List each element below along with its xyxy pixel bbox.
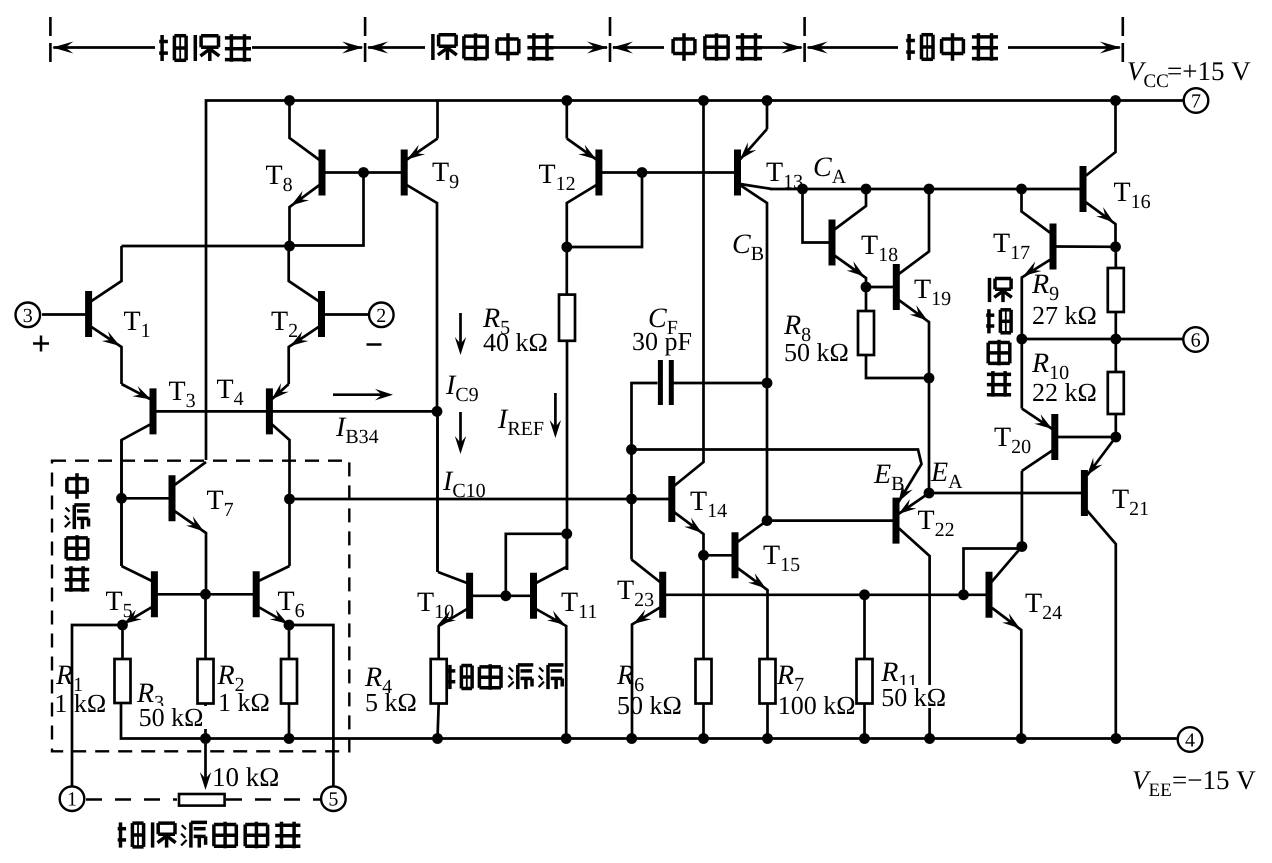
svg-text:=+15 V: =+15 V (1167, 56, 1251, 86)
svg-text:50 kΩ: 50 kΩ (881, 683, 946, 712)
svg-text:50 kΩ: 50 kΩ (617, 691, 682, 720)
svg-text:4: 4 (1185, 730, 1195, 752)
svg-text:50 kΩ: 50 kΩ (139, 703, 204, 732)
svg-text:5 kΩ: 5 kΩ (365, 688, 417, 717)
svg-text:1 kΩ: 1 kΩ (54, 689, 106, 718)
svg-text:1: 1 (67, 789, 77, 811)
svg-text:6: 6 (1191, 330, 1201, 352)
svg-text:=−15 V: =−15 V (1172, 765, 1256, 795)
svg-text:2: 2 (376, 305, 386, 327)
svg-text:27 kΩ: 27 kΩ (1032, 301, 1097, 330)
svg-text:10 kΩ: 10 kΩ (212, 762, 279, 792)
svg-text:50 kΩ: 50 kΩ (784, 338, 849, 367)
svg-text:22 kΩ: 22 kΩ (1032, 378, 1097, 407)
svg-text:1 kΩ: 1 kΩ (218, 688, 270, 717)
svg-text:7: 7 (1191, 91, 1201, 113)
svg-text:3: 3 (23, 305, 33, 327)
svg-text:100 kΩ: 100 kΩ (778, 691, 856, 720)
svg-text:40 kΩ: 40 kΩ (483, 328, 548, 357)
svg-text:30 pF: 30 pF (632, 327, 692, 356)
svg-text:5: 5 (328, 789, 338, 811)
